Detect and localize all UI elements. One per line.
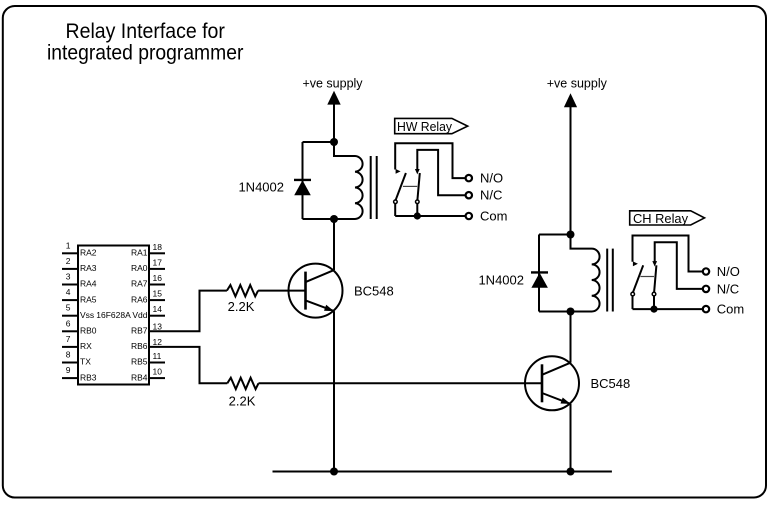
svg-text:5: 5: [66, 303, 71, 313]
K1 contacts: N/O feed wire: [395, 143, 465, 178]
wire Q2 emitter to ground rail: [570, 404, 572, 472]
svg-text:2.2K: 2.2K: [228, 299, 255, 314]
svg-text:2: 2: [66, 256, 71, 266]
IC U1 16F628A body: [78, 246, 149, 385]
K1 contacts: N/C feed wire: [417, 150, 465, 195]
U1 pin 9 RB3: [62, 365, 97, 382]
wire K2 top to D2: [539, 234, 571, 236]
wire Q1 emitter to ground rail: [333, 311, 335, 471]
svg-text:16F628A: 16F628A: [96, 310, 131, 320]
wire K1 top to D1: [303, 141, 335, 143]
K2 contacts: N/O feed wire: [633, 236, 703, 272]
svg-text:RB3: RB3: [80, 372, 97, 382]
junction K2 Com: [650, 306, 657, 313]
junction node K1 top: [330, 138, 338, 146]
svg-text:1N4002: 1N4002: [238, 179, 284, 194]
wire Q1 collector to relay K1: [333, 219, 335, 270]
svg-text:4: 4: [66, 287, 71, 297]
K2 core line 1: [606, 249, 608, 312]
U1 pin 17 RA0: [131, 257, 165, 273]
svg-text:N/C: N/C: [480, 188, 502, 203]
svg-text:RA5: RA5: [80, 294, 97, 304]
K2 core line 2: [612, 249, 614, 312]
svg-text:RA3: RA3: [80, 263, 97, 273]
K1 right switch arm: [417, 173, 419, 200]
svg-text:RX: RX: [80, 341, 92, 351]
title: [47, 19, 243, 64]
wire K1 Com line: [395, 215, 465, 217]
K1 N/O contact arrow: [396, 169, 401, 174]
junction K1 Com: [414, 212, 421, 219]
svg-text:RB6: RB6: [131, 341, 148, 351]
svg-text:RA4: RA4: [80, 279, 97, 289]
svg-text:Relay Interface for: Relay Interface for: [66, 19, 225, 43]
wire supply to K1 top: [333, 104, 335, 143]
K1 left pivot: [394, 200, 398, 204]
U1 pin 8 TX: [62, 350, 91, 367]
svg-text:BC548: BC548: [591, 376, 631, 391]
U1 pin 16 RA7: [131, 273, 165, 289]
+ve supply arrow right: [564, 93, 577, 107]
U1 pin 10 RB4: [131, 367, 165, 383]
svg-text:12: 12: [153, 337, 163, 347]
svg-text:3: 3: [66, 272, 71, 282]
wire K1 right pivot to Com: [416, 204, 418, 216]
wire D2 branch: [538, 235, 540, 312]
svg-text:RB7: RB7: [131, 326, 148, 336]
junction Q2 emitter at ground rail: [567, 468, 575, 476]
U1 pin 6 RB0: [62, 318, 97, 335]
svg-text:integrated programmer: integrated programmer: [47, 41, 243, 65]
wire R2 to Q2 base: [259, 382, 543, 384]
svg-text:1: 1: [66, 240, 71, 250]
U1 pin 13 RB7: [131, 322, 162, 336]
wire Q2 collector to relay K2: [570, 312, 572, 363]
svg-text:Vdd: Vdd: [132, 310, 147, 320]
relay coil K1: [334, 142, 363, 219]
terminal K1 Com: [466, 213, 472, 219]
svg-text:Com: Com: [717, 302, 744, 317]
U1 pin 4 RA5: [62, 287, 97, 304]
svg-text:9: 9: [66, 365, 71, 375]
svg-text:TX: TX: [80, 357, 91, 367]
U1 pin 12 RB6: [131, 337, 162, 351]
K1 core line 1: [370, 156, 372, 219]
junction Q1 emitter at ground rail: [330, 468, 338, 476]
K1 left switch arm: [396, 173, 406, 200]
resistor R2: [227, 378, 258, 389]
U1 pin 1 RA2: [62, 240, 97, 257]
svg-text:HW Relay: HW Relay: [397, 119, 452, 134]
svg-text:N/C: N/C: [717, 281, 739, 296]
K2 N/O contact arrow: [633, 261, 638, 266]
svg-text:RA7: RA7: [131, 279, 148, 289]
K1 right pivot: [416, 200, 420, 204]
wire D1 branch: [302, 142, 304, 219]
svg-text:17: 17: [153, 257, 163, 267]
svg-text:10: 10: [153, 367, 163, 377]
svg-text:N/O: N/O: [480, 171, 503, 186]
svg-text:+ve supply: +ve supply: [302, 76, 363, 90]
HW Relay banner: [395, 118, 468, 133]
svg-text:13: 13: [153, 322, 163, 332]
wire D2 bottom to K2 bottom: [539, 311, 571, 313]
svg-text:RA6: RA6: [131, 294, 148, 304]
K2 N/C contact arrow: [652, 261, 657, 266]
svg-text:18: 18: [153, 242, 163, 252]
wire RB6 pin12 to resistor R2: [149, 347, 227, 383]
wire D1 bottom to K1 bottom: [303, 218, 335, 220]
svg-text:RB0: RB0: [80, 326, 97, 336]
K1 core line 2: [376, 156, 378, 219]
U1 pin 3 RA4: [62, 272, 97, 289]
transistor Q1: [289, 264, 343, 318]
terminal K1 N/C: [466, 192, 472, 198]
K2 right switch arm: [654, 265, 656, 292]
U1 pin 14 Vdd: [132, 304, 165, 320]
wire supply to K2 top: [570, 106, 572, 235]
wire K2 right pivot to Com: [653, 296, 655, 309]
svg-text:RB4: RB4: [131, 372, 148, 382]
svg-text:8: 8: [66, 350, 71, 360]
terminal K2 Com: [703, 306, 709, 312]
+ve supply arrow left: [327, 91, 340, 105]
svg-text:Com: Com: [480, 209, 507, 224]
U1 pin 7 RX: [62, 334, 92, 351]
U1 pin 18 RA1: [131, 242, 165, 258]
svg-text:1N4002: 1N4002: [478, 272, 524, 287]
svg-text:RA0: RA0: [131, 263, 148, 273]
svg-text:N/O: N/O: [717, 264, 740, 279]
junction node K1 bottom: [330, 215, 338, 223]
diode D1: [294, 180, 311, 195]
junction node K2 bottom: [567, 308, 575, 316]
svg-text:CH Relay: CH Relay: [633, 211, 688, 226]
K1 N/C contact arrow: [415, 169, 420, 174]
relay coil K2: [571, 235, 600, 312]
svg-text:7: 7: [66, 334, 71, 344]
K2 contacts: N/C feed wire: [655, 242, 703, 289]
ground rail wire: [273, 471, 612, 473]
svg-text:RA2: RA2: [80, 248, 97, 258]
svg-text:+ve supply: +ve supply: [547, 76, 608, 90]
U1 pin 15 RA6: [131, 289, 165, 305]
K2 right pivot: [652, 292, 656, 296]
K2 left pivot: [631, 292, 635, 296]
U1 pin 2 RA3: [62, 256, 97, 273]
svg-text:6: 6: [66, 318, 71, 328]
svg-text:RA1: RA1: [131, 248, 148, 258]
svg-text:2.2K: 2.2K: [229, 393, 256, 408]
wire R1 to Q1 base: [258, 290, 305, 292]
svg-text:14: 14: [153, 304, 163, 314]
svg-text:RB5: RB5: [131, 357, 148, 367]
resistor R1: [227, 285, 258, 296]
junction node K2 top: [567, 231, 575, 239]
svg-text:11: 11: [153, 351, 162, 361]
CH Relay banner: [630, 211, 705, 226]
wire K1 left pivot to Com: [394, 204, 396, 216]
K2 left switch arm: [633, 265, 643, 292]
svg-text:15: 15: [153, 289, 163, 299]
diode D2: [531, 272, 548, 287]
svg-text:16: 16: [153, 273, 163, 283]
terminal K1 N/O: [466, 175, 472, 181]
U1 pin 11 RB5: [131, 351, 165, 367]
svg-text:Vss: Vss: [80, 310, 94, 320]
U1 pin 5 Vss: [62, 303, 94, 320]
wire K2 Com line: [633, 308, 703, 310]
K1 mechanical link: [403, 185, 417, 187]
wire K2 left pivot to Com: [632, 296, 634, 309]
terminal K2 N/C: [703, 286, 709, 292]
transistor Q2: [525, 356, 579, 410]
svg-text:BC548: BC548: [354, 284, 394, 299]
K2 mechanical link: [640, 276, 654, 278]
wire RB7 pin13 to resistor R1: [149, 291, 227, 332]
terminal K2 N/O: [703, 268, 709, 274]
